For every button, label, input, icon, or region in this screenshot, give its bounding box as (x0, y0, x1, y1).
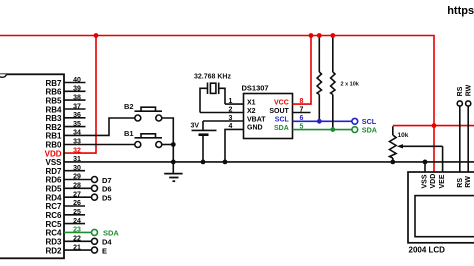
pin RD2 21 E (45, 244, 107, 255)
pin SCL 6 wire (275, 115, 352, 123)
svg-text:DS1307: DS1307 (242, 84, 269, 93)
svg-text:B2: B2 (124, 102, 134, 111)
battery 3V (191, 121, 217, 162)
svg-text:RD2: RD2 (45, 246, 62, 255)
pin RB4 37 (45, 103, 85, 114)
svg-text:VEE: VEE (439, 174, 446, 188)
svg-text:SOUT: SOUT (269, 108, 289, 115)
svg-text:8: 8 (300, 98, 304, 105)
pin RC4 23 SDA (45, 227, 119, 238)
svg-text:VSS: VSS (421, 174, 428, 188)
pushbutton B1 (124, 129, 173, 148)
junction dot ground lcd vss (423, 160, 428, 165)
svg-text:RC7: RC7 (45, 202, 62, 211)
pin VDD 32 (45, 147, 81, 158)
svg-text:RD7: RD7 (45, 167, 62, 176)
potentiometer RV1 10k (390, 126, 443, 172)
pin VCC 8 (274, 36, 311, 107)
wire VDD top red bus (0, 36, 434, 126)
junction dot ground ds1307 (223, 160, 228, 165)
junction dot red vdd lcd (432, 123, 437, 128)
svg-text:RD5: RD5 (45, 185, 62, 194)
junction dot ground battery (201, 160, 206, 165)
resistor R2 10k pullup SDA (331, 36, 360, 130)
pin RB3 36 (45, 112, 85, 123)
svg-text:X1: X1 (247, 99, 256, 106)
svg-text:VDD: VDD (430, 174, 437, 189)
net label SDA (352, 126, 377, 135)
pushbutton B2 (124, 102, 173, 162)
ground bus wire (VSS net) (64, 161, 474, 163)
wire VDD pin32 to top bus (64, 36, 96, 154)
svg-text:D7: D7 (102, 176, 112, 185)
svg-text:GND: GND (247, 125, 263, 132)
pin RB5 38 (45, 94, 85, 105)
svg-text:10k: 10k (398, 132, 409, 139)
svg-text:2: 2 (229, 106, 233, 113)
svg-text:7: 7 (300, 106, 304, 113)
svg-text:SDA: SDA (274, 125, 289, 132)
svg-text:32: 32 (73, 147, 81, 154)
svg-text:SDA: SDA (362, 126, 377, 135)
RTC U2 DS1307 (200, 36, 352, 162)
junction dot SCL R1 (317, 119, 322, 124)
svg-text:5: 5 (300, 123, 304, 130)
crystal X1 32.768 KHz (194, 74, 231, 113)
junction dot B1 right (171, 142, 176, 147)
svg-text:SDA: SDA (103, 228, 119, 237)
wire LCD VSS to ground bus (424, 162, 426, 172)
pin X1 1 (225, 98, 256, 107)
svg-text:D4: D4 (102, 238, 112, 247)
ground symbol (164, 162, 182, 181)
svg-text:RB0: RB0 (45, 141, 62, 150)
junction dot red bus R1 (317, 33, 322, 38)
junction dot red bus x311 (309, 33, 314, 38)
svg-text:2 x 10k: 2 x 10k (341, 82, 360, 88)
svg-text:E: E (102, 246, 107, 255)
svg-text:X2: X2 (247, 108, 256, 115)
svg-text:RB3: RB3 (45, 114, 62, 123)
svg-text:RC5: RC5 (45, 220, 62, 229)
junction dot red bus x96 (94, 33, 99, 38)
pin SDA 5 wire (274, 123, 352, 132)
svg-text:1: 1 (229, 98, 233, 105)
svg-text:RC6: RC6 (45, 211, 62, 220)
svg-text:32.768 KHz: 32.768 KHz (194, 74, 231, 81)
pin GND 4 (225, 123, 263, 162)
svg-text:RC4: RC4 (45, 229, 62, 238)
pin RD3 22 D4 (45, 236, 112, 247)
svg-text:VDD: VDD (45, 149, 62, 158)
svg-text:VCC: VCC (274, 99, 289, 106)
svg-text:RB1: RB1 (45, 132, 62, 141)
svg-text:SCL: SCL (275, 117, 290, 124)
junction dot SDA R2 (330, 127, 335, 132)
pin RC6 25 (45, 209, 85, 220)
svg-text:RD6: RD6 (45, 176, 62, 185)
pin RB1 34 wire to B2 (45, 118, 134, 141)
svg-text:2004 LCD: 2004 LCD (409, 246, 446, 255)
svg-text:RB5: RB5 (45, 96, 62, 105)
svg-text:RB2: RB2 (45, 123, 62, 132)
svg-text:4: 4 (229, 123, 233, 130)
svg-text:RW: RW (465, 176, 472, 188)
svg-text:D5: D5 (102, 194, 112, 203)
svg-text:https:: https: (447, 5, 474, 17)
pin RB2 35 (45, 121, 85, 132)
svg-text:RS: RS (457, 178, 464, 188)
svg-text:RD3: RD3 (45, 238, 62, 247)
pin RD6 29 D7 (45, 174, 111, 185)
pin RB0 33 wire to B1 (45, 139, 134, 150)
junction dot red bus R2 (330, 33, 335, 38)
svg-text:RS: RS (457, 86, 464, 96)
pin VBAT 3 (203, 115, 266, 124)
net stub RS (457, 86, 464, 172)
wire VDD red to LCD / pot (393, 126, 474, 172)
pin RC5 24 (45, 218, 85, 229)
svg-text:VBAT: VBAT (247, 116, 266, 123)
junction dot ground pot (390, 160, 395, 165)
svg-text:VSS: VSS (45, 158, 62, 167)
pin RD7 30 (45, 165, 85, 176)
pin RD4 27 D5 (45, 191, 111, 202)
svg-text:6: 6 (300, 115, 304, 122)
svg-text:RB4: RB4 (45, 105, 62, 114)
pin RB7 40 (45, 77, 85, 88)
svg-text:RW: RW (465, 84, 472, 96)
microcontroller U1 body (0, 74, 64, 258)
svg-text:3: 3 (229, 115, 233, 122)
svg-text:3V: 3V (191, 123, 200, 130)
pin X2 2 (200, 106, 256, 115)
resistor R1 10k pullup SCL (317, 36, 321, 122)
pin VSS 31 (45, 156, 81, 167)
net label SCL (352, 117, 377, 126)
pin RC7 26 (45, 200, 85, 211)
svg-text:D6: D6 (102, 185, 112, 194)
pin RB6 39 (45, 86, 85, 97)
pin SOUT 7 (269, 106, 310, 115)
net stub RW (465, 84, 472, 172)
LCD module 2004 (408, 172, 474, 255)
svg-text:B1: B1 (124, 129, 134, 138)
svg-text:RB6: RB6 (45, 88, 62, 97)
svg-text:RB7: RB7 (45, 79, 62, 88)
junction dot ground buttons (171, 160, 176, 165)
svg-text:RD4: RD4 (45, 193, 62, 202)
pin RD5 28 D6 (45, 183, 111, 194)
